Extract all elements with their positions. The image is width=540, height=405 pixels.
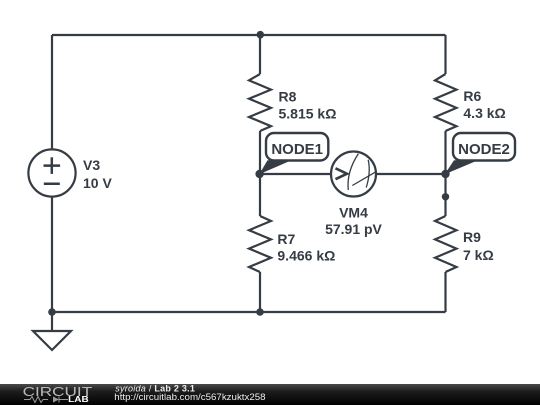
svg-text:4.3 kΩ: 4.3 kΩ bbox=[463, 105, 505, 121]
svg-text:LAB: LAB bbox=[68, 395, 89, 404]
svg-text:10 V: 10 V bbox=[83, 175, 112, 191]
svg-text:R8: R8 bbox=[279, 89, 297, 105]
svg-text:R7: R7 bbox=[277, 231, 295, 247]
svg-text:NODE1: NODE1 bbox=[271, 141, 323, 158]
svg-text:http://circuitlab.com/c567kzuk: http://circuitlab.com/c567kzuktx258 bbox=[114, 392, 265, 402]
svg-text:9.466 kΩ: 9.466 kΩ bbox=[277, 248, 335, 264]
svg-text:V3: V3 bbox=[83, 157, 100, 173]
svg-text:R6: R6 bbox=[463, 88, 481, 104]
svg-text:57.91 pV: 57.91 pV bbox=[325, 221, 382, 237]
svg-text:VM4: VM4 bbox=[339, 204, 368, 220]
svg-text:NODE2: NODE2 bbox=[458, 141, 510, 158]
svg-text:5.815 kΩ: 5.815 kΩ bbox=[279, 106, 337, 122]
svg-text:R9: R9 bbox=[463, 229, 481, 245]
svg-text:7 kΩ: 7 kΩ bbox=[463, 247, 494, 263]
